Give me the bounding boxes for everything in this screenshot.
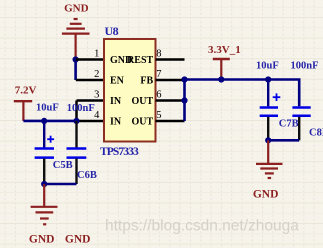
wire bottom left rail <box>44 183 76 186</box>
junction dot pin1/GND <box>73 56 79 62</box>
svg-text:FB: FB <box>140 76 153 87</box>
wire pin1 to pin2 vertical <box>74 60 77 81</box>
junction dot bottom right <box>265 137 271 143</box>
svg-text:5: 5 <box>156 110 161 121</box>
pin 5 <box>156 120 185 123</box>
svg-text:10uF: 10uF <box>36 102 59 113</box>
capacitor C8B <box>292 108 310 141</box>
svg-text:U8: U8 <box>105 24 119 38</box>
pin 2 <box>76 79 104 82</box>
junction dot C6B / pin4 tap <box>73 118 79 124</box>
svg-text:C5B: C5B <box>53 160 73 171</box>
svg-text:REST: REST <box>127 55 153 66</box>
junction dot bottom left <box>41 181 47 187</box>
power port GND bottom-left earth symbol <box>31 184 58 224</box>
capacitor C6B <box>67 121 87 184</box>
svg-text:TPS7333: TPS7333 <box>100 146 139 158</box>
svg-text:C8B: C8B <box>309 127 323 138</box>
capacitor C7B <box>260 80 281 141</box>
svg-text:C7B: C7B <box>279 118 299 129</box>
svg-text:IN: IN <box>110 96 122 107</box>
wire 3.3V rail <box>185 80 300 107</box>
junction dot pin7 <box>181 76 187 82</box>
svg-text:OUT: OUT <box>132 117 154 128</box>
pin 8 <box>156 58 185 61</box>
svg-text:8: 8 <box>156 49 161 60</box>
power port 7.2V bar symbol <box>14 101 32 121</box>
pin 7 <box>156 79 185 82</box>
pin 4 <box>77 120 105 123</box>
svg-text:7.2V: 7.2V <box>15 85 37 97</box>
svg-text:10uF: 10uF <box>256 61 279 72</box>
svg-text:6: 6 <box>156 90 161 101</box>
junction dot C5B tap <box>41 118 47 124</box>
wire pin3 to pin4 vertical <box>75 101 78 122</box>
svg-text:IN: IN <box>110 117 122 128</box>
svg-text:GND: GND <box>65 234 91 246</box>
svg-text:GND: GND <box>64 3 89 15</box>
svg-text:100nF: 100nF <box>291 61 319 72</box>
svg-text:GND: GND <box>253 189 279 201</box>
svg-text:2: 2 <box>94 69 99 80</box>
IC U8 body (TPS7333) <box>104 39 156 142</box>
wire bottom right rail <box>268 139 299 142</box>
svg-text:C6B: C6B <box>77 170 97 181</box>
svg-text:EN: EN <box>110 76 125 87</box>
power port GND right earth symbol <box>256 140 283 178</box>
svg-text:3: 3 <box>94 90 99 101</box>
pin 1 <box>76 58 104 61</box>
wire right vertical pin5-pin7 <box>183 80 186 122</box>
pin 6 <box>156 99 185 102</box>
power port GND top earth symbol <box>62 19 90 59</box>
junction dot pin6 <box>181 97 187 103</box>
power port 3.3V_1 bar symbol <box>213 59 230 80</box>
capacitor C5B <box>35 121 55 184</box>
svg-text:OUT: OUT <box>132 96 154 107</box>
svg-text:GND: GND <box>29 234 55 246</box>
svg-text:3.3V_1: 3.3V_1 <box>208 44 241 56</box>
junction dot 3.3V <box>218 76 224 82</box>
junction dot C7B tap <box>265 76 271 82</box>
pin 3 <box>77 99 105 102</box>
svg-text:7: 7 <box>156 69 161 80</box>
svg-text:4: 4 <box>94 110 100 121</box>
svg-text:100nF: 100nF <box>67 103 95 114</box>
svg-text:1: 1 <box>94 49 99 60</box>
wire 7.2V rail <box>23 120 76 123</box>
svg-text:https://blog.csdn.net/zhouga: https://blog.csdn.net/zhouga <box>105 218 299 235</box>
